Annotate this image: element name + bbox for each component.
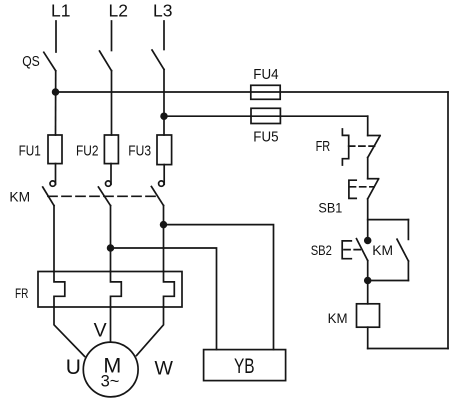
wire L3 drop to QS — [163, 21, 165, 50]
wire parallel branch bottom — [368, 280, 409, 282]
fuse FU2 — [104, 135, 118, 164]
button SB2 actuator bracket — [342, 241, 351, 259]
brake YB box — [204, 350, 286, 381]
fuse FU1 — [48, 135, 62, 164]
svg-text:3~: 3~ — [101, 373, 120, 391]
svg-text:QS: QS — [22, 54, 40, 70]
wire bottom rail to right edge — [368, 348, 448, 350]
fuse FU4 — [251, 85, 280, 99]
wire SB1 to SB2 — [367, 199, 369, 241]
svg-text:FU4: FU4 — [253, 66, 278, 83]
contactor KM pole 3 terminal circle — [159, 181, 164, 186]
node junction SB2 top terminal — [365, 238, 371, 244]
contact KM auxiliary top wire — [407, 220, 409, 240]
thermal relay FR heater element 2 — [111, 272, 122, 308]
motor M circle — [83, 342, 138, 397]
wire L2 drop to QS — [111, 21, 113, 51]
thermal relay FR heater element 3 — [164, 272, 175, 308]
thermal relay FR heater box — [38, 272, 182, 308]
wire SB2 to KM coil — [367, 281, 369, 304]
button SB1 actuator bracket — [349, 180, 356, 198]
node junction phase2 to brake tap — [108, 245, 114, 251]
fuse FU5 — [251, 108, 280, 123]
svg-text:KM: KM — [328, 310, 348, 326]
svg-text:SB2: SB2 — [311, 242, 332, 258]
node junction L3/control bus — [161, 113, 167, 119]
thermal relay FR heater element 1 — [54, 272, 65, 308]
contact KM auxiliary bottom wire — [407, 261, 409, 281]
node junction phase3 to brake tap — [161, 222, 167, 228]
contactor KM pole 1 blade — [43, 187, 54, 206]
svg-text:KM: KM — [372, 242, 393, 258]
svg-text:U: U — [66, 356, 81, 379]
switch QS pole 3 blade — [152, 50, 164, 70]
thermal actuator FR bracket — [342, 129, 348, 165]
wire KM pole 1 to FR box — [53, 206, 55, 272]
button SB1 NC fixed bar — [368, 178, 379, 180]
contact KM auxiliary blade — [397, 239, 408, 261]
switch QS pole 1 blade — [44, 52, 56, 71]
wire FU2 to KM contact 2 — [110, 164, 112, 185]
wire L3 from QS to FU3 — [163, 70, 165, 136]
wire FR to motor V terminal — [110, 307, 112, 342]
button SB2 NO blade — [357, 239, 368, 261]
wire FR to motor U terminal — [54, 307, 85, 356]
svg-text:FU1: FU1 — [19, 143, 41, 160]
svg-text:V: V — [94, 320, 107, 342]
svg-text:FU5: FU5 — [253, 129, 278, 146]
svg-text:FU3: FU3 — [128, 143, 151, 160]
wire control bus second (L3 phase to FU5 then down) — [164, 115, 368, 117]
wire phase3 tap to YB — [164, 225, 274, 350]
wire KM coil to bottom rail — [367, 327, 369, 348]
relay contact FR NC fixed bar — [368, 135, 380, 137]
contactor KM pole 1 terminal circle — [50, 181, 55, 186]
button SB1 actuator link (dashed) — [350, 186, 375, 188]
wire control bus top (L1 phase to FU4 and right edge) — [56, 91, 449, 93]
wire FU3 to KM contact 3 — [163, 165, 165, 185]
switch QS pole 2 blade — [100, 51, 112, 71]
wire parallel branch top — [368, 219, 409, 221]
wire phase2 tap to YB — [111, 248, 217, 350]
svg-text:L2: L2 — [109, 1, 128, 21]
wire FU1 to KM contact 1 — [55, 164, 57, 185]
wire L1 from QS to FU1 — [55, 71, 57, 135]
wire FR to motor W terminal — [137, 307, 164, 356]
svg-text:SB1: SB1 — [318, 200, 342, 216]
thermal actuator FR link (dashed) — [349, 145, 375, 147]
wire L2 from QS to FU2 — [111, 71, 113, 135]
svg-text:FR: FR — [316, 139, 331, 155]
wire right edge return to top bus — [447, 92, 449, 349]
button SB1 NC blade — [368, 179, 379, 199]
wire control bus down to FR contact — [367, 116, 369, 135]
node junction parallel branch bottom — [365, 278, 371, 284]
contactor KM mechanical link (dashed) — [48, 195, 158, 197]
wire L1 drop to QS — [55, 21, 57, 52]
wire KM pole 2 to FR box — [110, 206, 112, 272]
wire SB2 bottom terminal — [367, 261, 369, 281]
coil KM rectangle — [357, 304, 380, 327]
svg-text:YB: YB — [234, 355, 255, 378]
wire FR contact to SB1 — [367, 158, 369, 179]
svg-text:FR: FR — [15, 285, 28, 301]
wire KM pole 3 to FR box — [163, 206, 165, 272]
svg-text:L1: L1 — [51, 1, 70, 21]
node junction L1/control bus — [53, 89, 59, 95]
contactor KM pole 3 blade — [151, 187, 163, 206]
svg-text:FU2: FU2 — [76, 143, 99, 160]
relay contact FR NC blade — [368, 136, 380, 158]
svg-text:KM: KM — [9, 188, 30, 204]
svg-text:L3: L3 — [153, 1, 172, 21]
contactor KM pole 2 terminal circle — [106, 181, 111, 186]
svg-text:W: W — [155, 358, 174, 380]
fuse FU3 — [157, 135, 172, 165]
contactor KM pole 2 blade — [98, 187, 110, 206]
button SB2 actuator link (dashed) — [344, 249, 362, 251]
